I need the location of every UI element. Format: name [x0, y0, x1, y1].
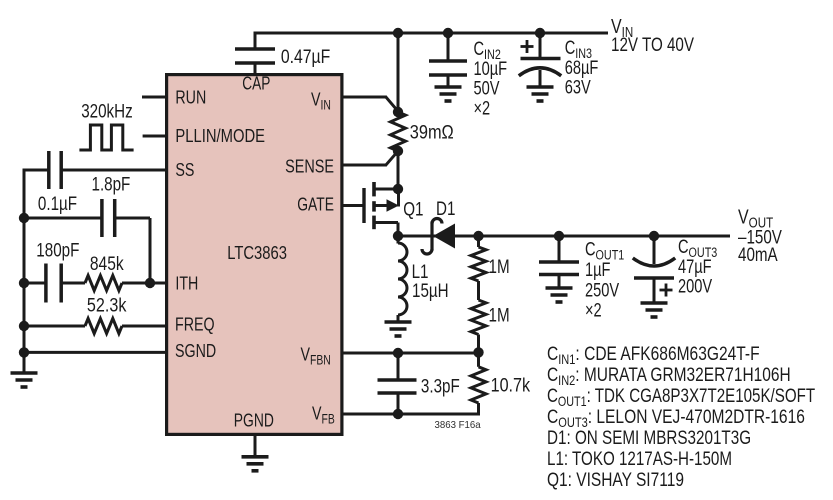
svg-text:845k: 845k [90, 253, 124, 275]
svg-text:3863 F16a: 3863 F16a [435, 420, 482, 431]
svg-text:GATE: GATE [297, 195, 334, 215]
svg-text:SS: SS [175, 160, 194, 180]
svg-text:1M: 1M [489, 304, 510, 326]
svg-text:×2: ×2 [585, 300, 602, 321]
svg-text:39mΩ: 39mΩ [410, 121, 454, 142]
svg-text:PGND: PGND [234, 411, 274, 431]
svg-text:1µF: 1µF [585, 259, 610, 280]
svg-text:1.8pF: 1.8pF [92, 173, 131, 195]
svg-text:×2: ×2 [474, 98, 491, 119]
svg-text:0.47µF: 0.47µF [281, 46, 330, 68]
svg-text:SGND: SGND [175, 342, 216, 362]
svg-text:RUN: RUN [175, 88, 206, 108]
svg-text:250V: 250V [585, 280, 620, 301]
svg-text:15µH: 15µH [412, 280, 449, 302]
svg-text:LTC3863: LTC3863 [227, 243, 287, 264]
svg-text:180pF: 180pF [36, 239, 79, 261]
svg-text:L1: TOKO 1217AS-H-150M: L1: TOKO 1217AS-H-150M [547, 447, 732, 469]
svg-text:PLLIN/MODE: PLLIN/MODE [175, 125, 265, 146]
svg-text:Q1: Q1 [403, 198, 423, 220]
svg-text:50V: 50V [474, 78, 501, 99]
svg-text:63V: 63V [565, 77, 592, 98]
svg-text:52.3k: 52.3k [87, 294, 127, 316]
svg-text:320kHz: 320kHz [81, 100, 132, 122]
svg-text:10µF: 10µF [474, 58, 508, 79]
svg-text:SENSE: SENSE [285, 156, 334, 177]
svg-text:200V: 200V [678, 276, 713, 297]
svg-text:68µF: 68µF [565, 57, 599, 78]
svg-text:D1: D1 [436, 197, 455, 219]
svg-text:CAP: CAP [242, 74, 270, 94]
svg-text:10.7k: 10.7k [491, 374, 531, 396]
svg-text:Q1: VISHAY SI7119: Q1: VISHAY SI7119 [547, 468, 684, 490]
svg-text:40mA: 40mA [738, 243, 778, 265]
svg-text:D1: ON SEMI MBRS3201T3G: D1: ON SEMI MBRS3201T3G [547, 426, 751, 448]
svg-text:ITH: ITH [175, 274, 198, 294]
svg-text:3.3pF: 3.3pF [421, 375, 460, 397]
svg-text:0.1µF: 0.1µF [38, 192, 77, 214]
svg-text:12V TO 40V: 12V TO 40V [611, 33, 694, 55]
svg-text:47µF: 47µF [678, 256, 712, 277]
svg-text:1M: 1M [489, 255, 510, 277]
svg-text:FREQ: FREQ [175, 315, 215, 335]
